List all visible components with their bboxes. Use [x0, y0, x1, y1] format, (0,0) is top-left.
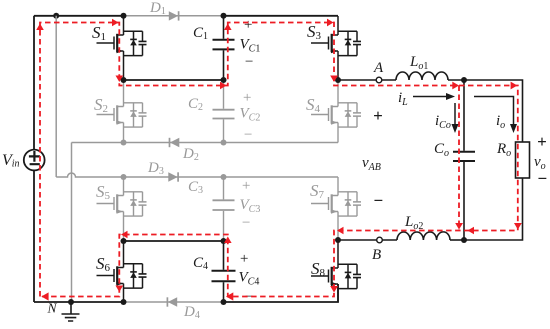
red arrow left bottom output	[468, 227, 475, 235]
svg-text:+: +	[242, 90, 252, 106]
source Vin	[24, 150, 45, 171]
red arrow down Co branch	[455, 223, 463, 230]
svg-text:+: +	[239, 251, 249, 267]
red arrow down S8	[330, 286, 338, 293]
wire node B row	[338, 239, 397, 241]
transistor S1	[97, 16, 147, 80]
red arrow down S1	[116, 76, 124, 83]
inductor Lo1	[396, 72, 448, 80]
node dot C4 bottom	[221, 299, 227, 305]
wire rail2 gray with hop	[56, 173, 338, 177]
red arrow right top-left	[112, 19, 119, 27]
capacitor C4	[212, 241, 236, 302]
svg-text:−: −	[537, 169, 547, 188]
node dot S6 top	[121, 238, 127, 244]
diode D4	[167, 297, 177, 306]
node dot S1 top	[121, 13, 127, 19]
wire bottom rail black left	[34, 301, 124, 303]
capacitor Co	[453, 80, 475, 240]
arrow iCo	[452, 103, 459, 133]
red arrow left to C4	[226, 292, 233, 300]
diode D3	[168, 172, 178, 181]
svg-text:A: A	[373, 60, 384, 76]
svg-text:−: −	[243, 127, 253, 143]
node dot C3 rail2 gray	[221, 174, 227, 180]
transistor S3	[311, 16, 361, 80]
svg-text:+: +	[373, 106, 383, 125]
node dot top-left junction	[53, 13, 59, 19]
transistor S2	[97, 81, 147, 143]
current loop red dashed main	[40, 23, 518, 297]
wire top rail black right segment	[224, 15, 339, 17]
node dot S5 rail2 gray	[121, 174, 127, 180]
svg-text:+: +	[243, 17, 253, 33]
node dot C1 bottom	[221, 77, 227, 83]
node dot S8 top	[335, 237, 341, 243]
transistor S8	[311, 240, 361, 302]
red arrow down S3	[330, 76, 338, 83]
node junction Lo1/Co	[461, 77, 467, 83]
node dot S3 bottom	[335, 77, 341, 83]
capacitor C2	[213, 80, 235, 143]
diode D2	[170, 138, 180, 147]
wire bottom rail gray with D4	[124, 301, 224, 303]
svg-text:+: +	[241, 178, 251, 194]
transistor S6	[97, 241, 147, 302]
red arrow up C4	[224, 237, 232, 244]
node dot C4 top	[221, 238, 227, 244]
red arrow left to B	[337, 227, 344, 235]
svg-text:−: −	[241, 215, 251, 231]
node dot C2 rail1 gray	[221, 140, 227, 146]
wire rail1 gray	[72, 142, 339, 144]
wire gray vertical from top rail to rail2	[55, 16, 57, 177]
wire bottom rail black right	[224, 284, 339, 302]
transistor S4	[311, 80, 361, 143]
red arrow right mid output	[452, 82, 459, 90]
wire node A row	[338, 79, 396, 81]
current branch red dashed through Co	[458, 86, 460, 231]
red arrow left to S6	[121, 231, 128, 239]
svg-text:N: N	[47, 301, 58, 316]
arrow iL	[413, 93, 455, 100]
svg-text:−: −	[244, 54, 254, 70]
wire gray vertical rail1-left down to ground	[71, 143, 73, 303]
svg-text:+: +	[537, 132, 547, 151]
red arrow up left rail	[36, 24, 44, 31]
wire S1 bottom horizontal to C1	[124, 79, 224, 81]
red arrow right to C1	[220, 82, 227, 90]
wire left rail (Vin branch)	[33, 16, 35, 302]
red arrow right to S3	[327, 19, 334, 27]
node A	[376, 77, 382, 83]
wire top rail black left segment	[34, 15, 124, 17]
transistor S7	[311, 177, 361, 240]
ground N	[62, 302, 80, 321]
diode D1	[169, 11, 179, 20]
transistor S5	[97, 177, 147, 241]
resistor Ro	[516, 142, 530, 178]
wire Lo2 to Co junction	[450, 239, 464, 241]
svg-text:−: −	[373, 191, 383, 210]
wire S6 top horizontal to C4	[124, 240, 224, 242]
node dot S1 bottom	[121, 77, 127, 83]
arrow io	[474, 97, 517, 134]
red arrow right to Ro	[511, 82, 518, 90]
node dot S6 bottom	[121, 299, 127, 305]
node dot S2 rail1 gray	[121, 140, 127, 146]
capacitor C1	[213, 16, 235, 80]
red arrow down S6	[116, 286, 124, 293]
wire Lo1 to right corner	[448, 80, 523, 142]
red arrow down Ro branch	[514, 223, 522, 230]
red arrow up C1	[224, 24, 232, 31]
node junction Lo2/Co bottom	[461, 237, 467, 243]
wire Ro bottom to corner	[464, 178, 523, 240]
red arrow left bottom-left	[41, 292, 48, 300]
node dot C1 top	[221, 13, 227, 19]
node dot ground	[68, 299, 74, 305]
inductor Lo2	[397, 232, 450, 240]
capacitor C3	[213, 177, 235, 241]
svg-text:B: B	[372, 247, 381, 263]
node B	[377, 237, 383, 243]
wire top rail gray segment with D1	[124, 15, 224, 17]
